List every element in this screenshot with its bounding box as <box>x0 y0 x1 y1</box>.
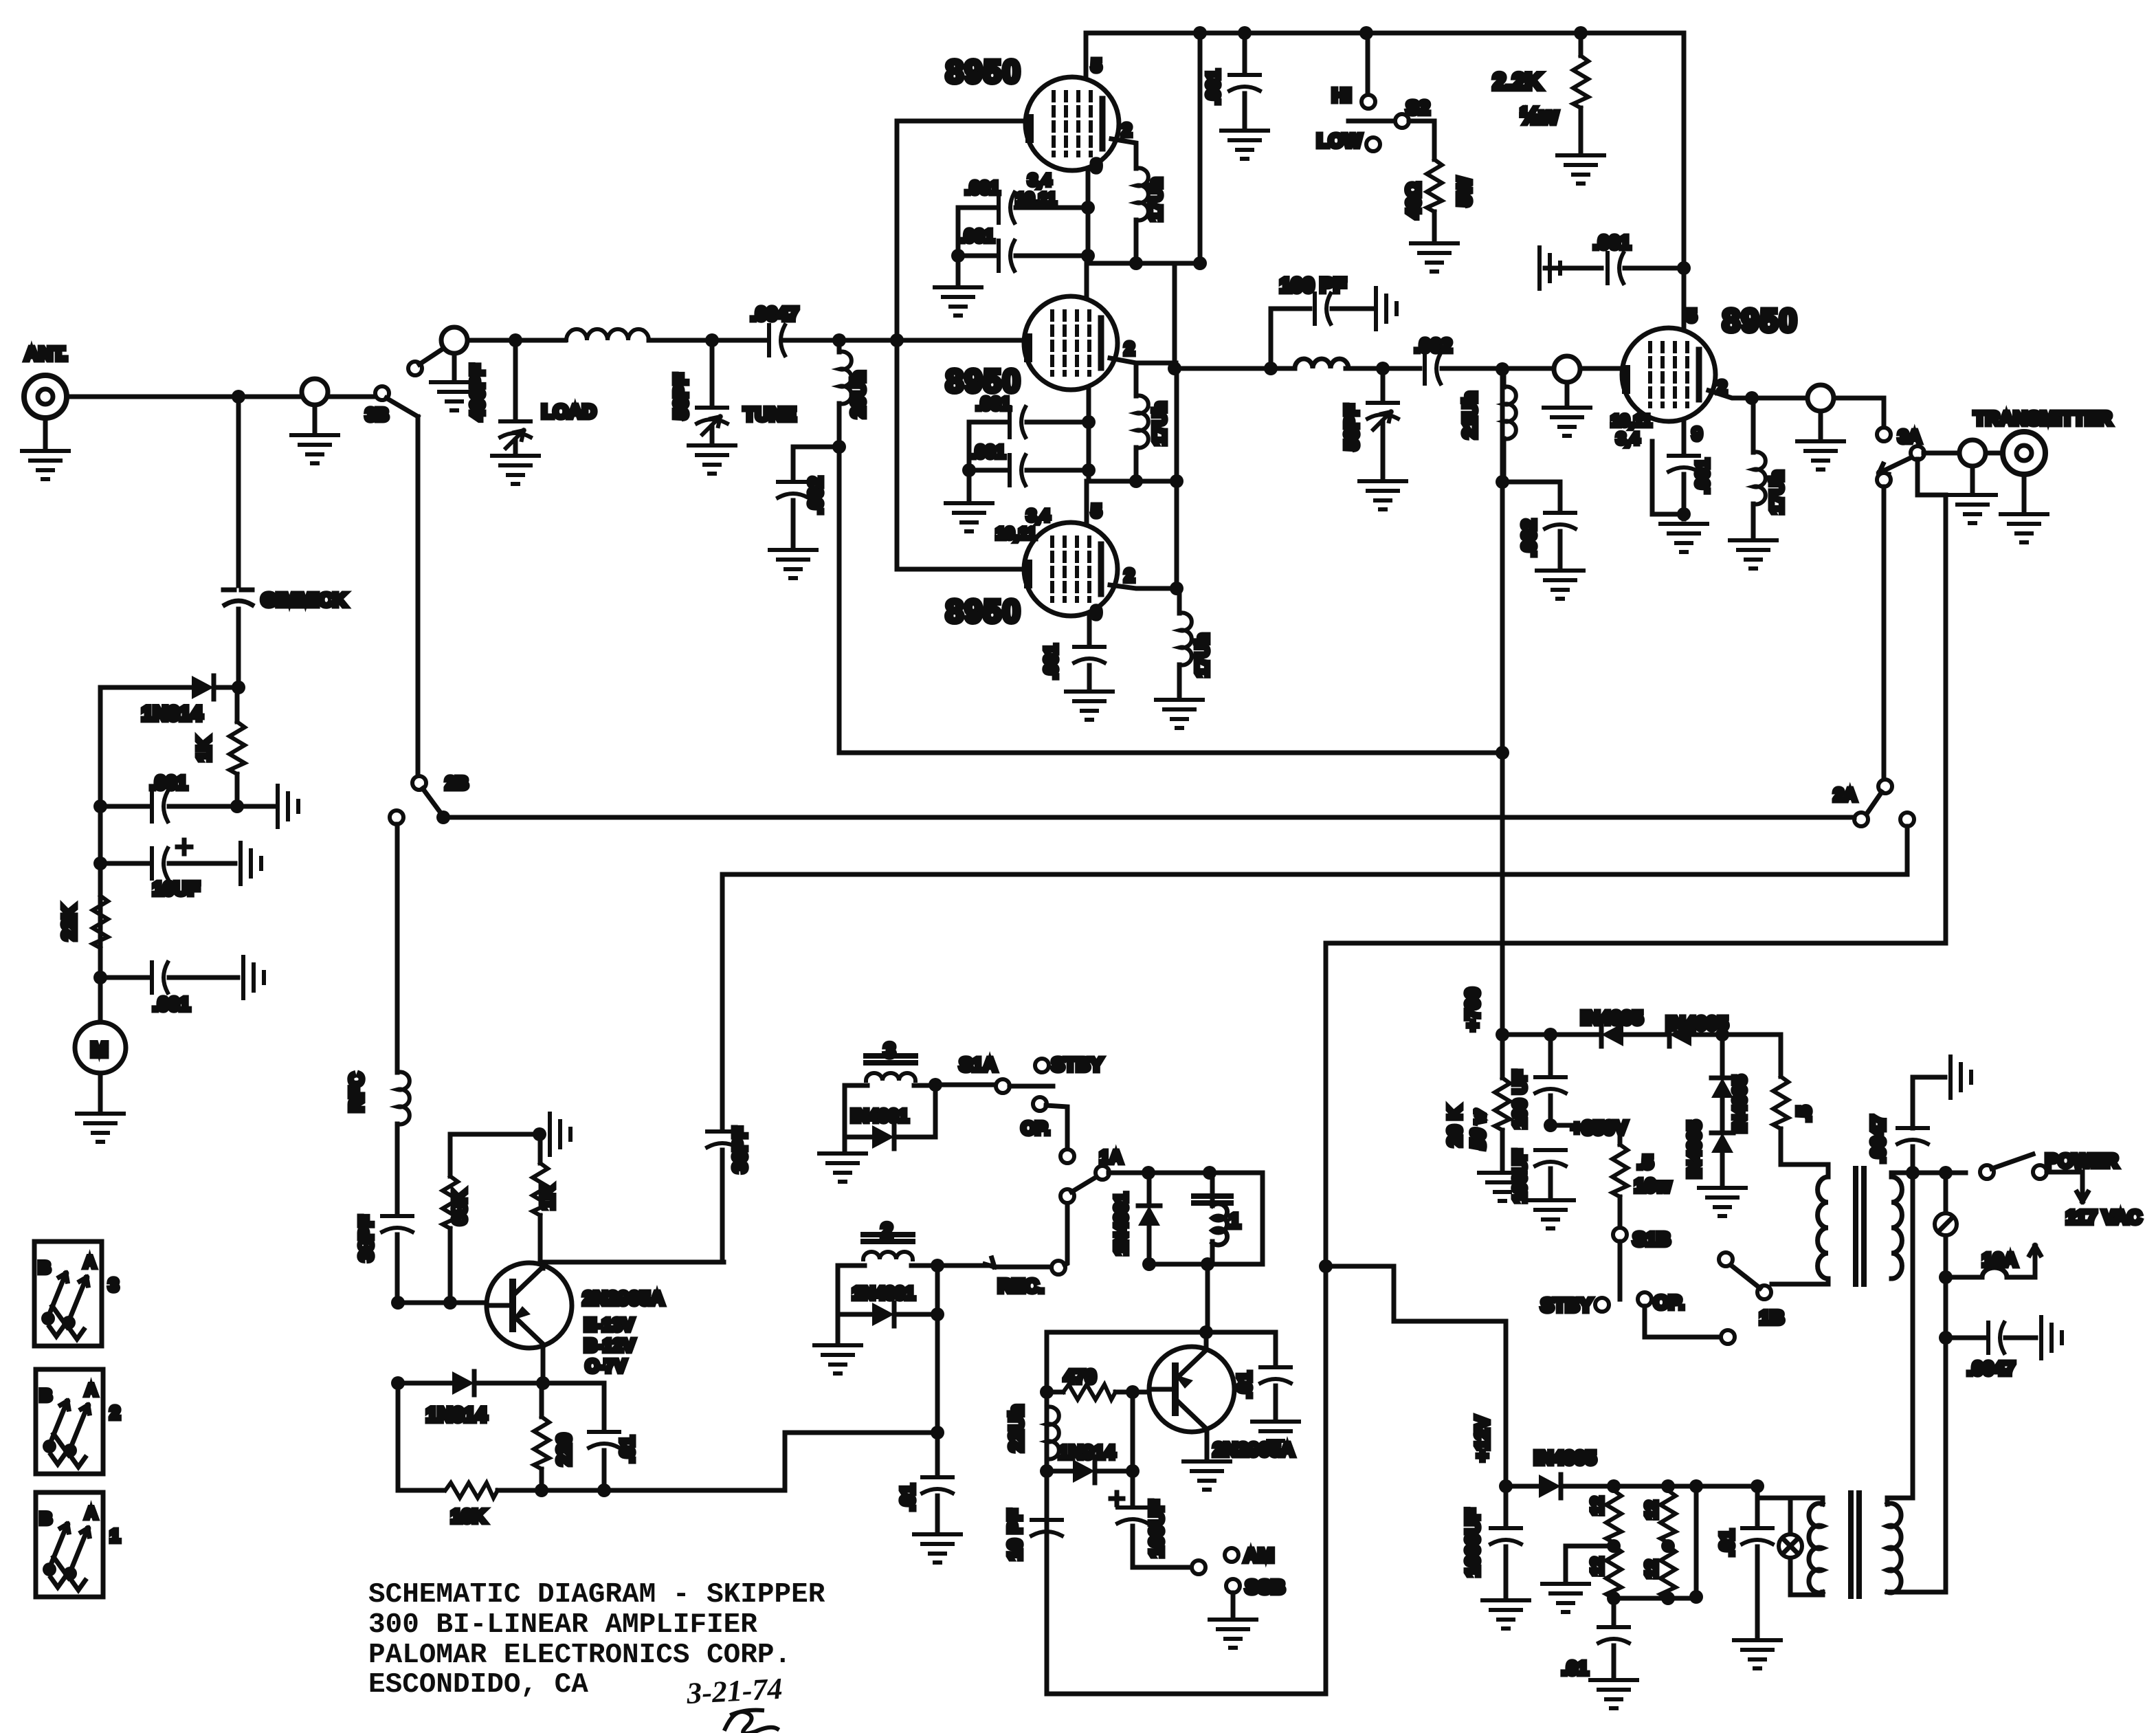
connector feedthru tube4 grid <box>1554 356 1580 382</box>
wire 3B to 2B <box>416 417 421 777</box>
ground under C24 <box>1252 1422 1299 1450</box>
capacitor C5 50PF TUNE variable <box>710 340 715 407</box>
switch 1B contact <box>1719 1252 1733 1266</box>
svg-text:2N2905A: 2N2905A <box>1213 1439 1294 1460</box>
wire tube1 cathode <box>1086 170 1091 263</box>
svg-text:ESCONDIDO, CA: ESCONDIDO, CA <box>368 1669 588 1701</box>
node junction grid bus <box>890 333 904 347</box>
ground under .01 T2 <box>1734 1640 1781 1668</box>
wire line2 2B to 2A <box>443 815 1854 820</box>
node junction Q2 base <box>1126 1385 1140 1399</box>
svg-text:1A: 1A <box>1100 1147 1122 1167</box>
svg-text:1N914: 1N914 <box>426 1404 487 1426</box>
wire bottom rail <box>398 1488 443 1493</box>
wire L1 to TUNE junction <box>649 338 767 343</box>
resistor R4 2.2K half W <box>1574 26 1588 40</box>
capacitor C11 .001 tube2 bypass <box>969 468 1006 473</box>
node junction .001 lower <box>93 971 107 984</box>
switch REC contact <box>1052 1261 1065 1274</box>
transformer T1 core <box>1856 1169 1864 1284</box>
svg-text:B: B <box>38 1259 50 1277</box>
node junction output feed <box>1168 362 1181 375</box>
svg-text:100 PF: 100 PF <box>1280 274 1346 297</box>
capacitor C32 .01 rect <box>1612 1598 1616 1626</box>
node junction .0047 lower <box>1939 1331 1953 1345</box>
node junction Q2 top <box>1199 1325 1213 1339</box>
node junction diode line left <box>391 1376 405 1390</box>
wire 2A right contact to line3 <box>722 826 1907 874</box>
ground under .01 rect <box>1590 1680 1637 1708</box>
capacitor C30 .0047 lower <box>1946 1336 1985 1340</box>
svg-text:LOW: LOW <box>1317 130 1362 151</box>
wire GIMMICK upper lead <box>236 397 241 586</box>
svg-text:TUNE: TUNE <box>744 404 796 425</box>
ground under transmitter <box>2001 514 2047 542</box>
diode D11 IN4005 <box>1506 1484 1537 1489</box>
switch POWER blade <box>1992 1154 2033 1169</box>
wire GIMMICK lower lead <box>236 609 241 687</box>
svg-text:.001: .001 <box>959 225 994 246</box>
capacitor C21 30PF <box>720 874 725 1131</box>
svg-text:.01: .01 <box>1562 1657 1588 1679</box>
transistor Q2 2N2905A <box>1149 1347 1234 1432</box>
svg-text:.001: .001 <box>1203 69 1223 104</box>
wire collector line <box>543 1260 724 1265</box>
wire screen feed vertical <box>1198 33 1203 263</box>
node junction 100UF stack <box>1544 1028 1557 1041</box>
wire output line tube2 plate <box>1176 366 1295 371</box>
svg-text:.001: .001 <box>976 393 1011 414</box>
capacitor C33 .01 T2 <box>1755 1486 1760 1527</box>
ground tube1 bypass <box>935 287 981 316</box>
switch 3A lower contact <box>1877 473 1891 487</box>
ground under grid feedthru <box>1544 408 1590 436</box>
svg-text:.5: .5 <box>1637 1151 1653 1173</box>
svg-text:12: 12 <box>1588 1497 1607 1515</box>
svg-text:2: 2 <box>1122 120 1131 140</box>
svg-text:.001: .001 <box>153 993 190 1015</box>
switch S1B OP contact <box>1638 1292 1652 1306</box>
capacitor C12 .001 tube3 <box>1074 647 1104 663</box>
ground chassis under 100UF <box>1527 1200 1574 1228</box>
resistor R11 .5 <box>1779 1035 1783 1077</box>
wire .0047 to grid bus <box>785 338 1023 343</box>
ground tube2 bypass <box>946 503 992 531</box>
svg-text:AM: AM <box>1244 1545 1274 1566</box>
switch POWER pivot <box>1980 1165 1994 1179</box>
capacitor C1 .001 <box>100 804 148 809</box>
svg-text:S1A: S1A <box>959 1054 997 1075</box>
svg-text:OP.: OP. <box>1021 1118 1049 1138</box>
capacitor C10 .001 tube2 bypass <box>969 420 1006 425</box>
node junction +350V <box>1544 1118 1557 1132</box>
svg-text:9: 9 <box>1692 423 1702 444</box>
inductor L5 17Uh tube3 <box>1177 588 1182 613</box>
wire 1A to relay1 <box>1109 1171 1263 1175</box>
wire ANT to switch 3B <box>67 395 379 399</box>
capacitor C13 .001 bus bypass <box>1243 33 1247 74</box>
capacitor GIMMICK <box>223 588 254 593</box>
svg-text:1N4001: 1N4001 <box>1111 1193 1131 1255</box>
svg-text:12: 12 <box>1588 1557 1607 1576</box>
wire 3A to 2A <box>1882 487 1887 780</box>
svg-text:1000UF: 1000UF <box>1462 1508 1483 1577</box>
wire Q1 collector <box>541 1263 546 1268</box>
diode D3 1N4001 relay2 <box>838 1312 871 1317</box>
svg-text:GIMMICK: GIMMICK <box>261 589 346 610</box>
wire relay2 right leg <box>935 1266 940 1433</box>
node junction 20uh <box>832 333 846 347</box>
wire rect mid stub to ground <box>1566 1546 1614 1580</box>
ground under .002 bypass <box>1537 571 1583 599</box>
switch S2 HI contact <box>1362 95 1375 109</box>
svg-text:10,11: 10,11 <box>996 525 1036 543</box>
diode D4 1N4001 relay3 <box>872 1125 894 1149</box>
node junction cathode cap B <box>1081 249 1095 263</box>
wire to 50PF junction <box>1346 366 1420 371</box>
wire pivot line to transmitter <box>1924 451 2001 456</box>
ground under rect stub <box>1542 1584 1589 1612</box>
node junction bus HI <box>1359 26 1373 40</box>
diode D7 IN4005 <box>1601 1023 1623 1046</box>
switch 2B left contact <box>390 810 403 824</box>
svg-text:M: M <box>91 1039 108 1061</box>
wire Q2 emitter ground <box>1205 1429 1210 1457</box>
ground chassis right of 10UF <box>241 843 261 884</box>
wire base drop <box>1131 1392 1135 1471</box>
diode D10 IN4005 vertical <box>1711 1133 1733 1153</box>
node junction rect A <box>1607 1479 1621 1493</box>
svg-text:8950: 8950 <box>1722 302 1798 338</box>
transformer T2 primary <box>1809 1503 1823 1593</box>
winding W2 12V <box>1660 1490 1676 1543</box>
svg-text:10UF: 10UF <box>153 878 199 899</box>
capacitor C17 .002 series <box>1425 353 1441 384</box>
ground under .002 <box>770 550 816 578</box>
inductor L6 output <box>1295 359 1348 368</box>
node junction anode bus tube2 <box>1170 474 1183 488</box>
svg-text:PALOMAR ELECTRONICS CORP.: PALOMAR ELECTRONICS CORP. <box>368 1640 791 1671</box>
node junction ANT/GIMMICK <box>232 390 245 404</box>
svg-text:.01: .01 <box>1234 1371 1255 1398</box>
ground chassis .0047 <box>1951 1057 1971 1098</box>
wire bias top line <box>450 1132 540 1137</box>
connector feedthru tube4 plate <box>1808 385 1834 411</box>
wire relay1 right leg <box>1260 1173 1265 1264</box>
svg-text:S1B: S1B <box>1633 1228 1670 1250</box>
svg-text:2: 2 <box>1124 565 1134 586</box>
relay RY1 coil <box>1194 1196 1231 1203</box>
node junction relay2 drop <box>931 1426 944 1439</box>
transformer T1 primary <box>1818 1177 1828 1279</box>
wire 12V rail <box>1614 1484 1757 1489</box>
relay RY1 rail top <box>1142 1166 1155 1180</box>
resistor R8 10K <box>445 1483 498 1498</box>
node junction gimmick/1N914/1K <box>232 681 245 694</box>
svg-text:A: A <box>84 1253 96 1272</box>
ground under diode stack <box>1699 1188 1746 1216</box>
node junction fuse <box>1939 1270 1953 1284</box>
wire S2 to 40 ohm <box>1409 121 1434 159</box>
capacitor C18 .002 bypass <box>1545 513 1575 529</box>
node junction rect mid <box>1607 1539 1621 1553</box>
switch 1A pivot <box>1096 1166 1109 1180</box>
capacitor C24 .01 at Q2 <box>1274 1332 1278 1367</box>
capacitor C22 .01 <box>602 1383 607 1431</box>
node junction .001 <box>93 799 107 813</box>
node junction T2 tap <box>1751 1479 1764 1493</box>
capacitor C27 100UF upper <box>1548 1035 1553 1077</box>
svg-text:.001: .001 <box>1593 232 1631 253</box>
ground chassis bias <box>550 1114 570 1155</box>
svg-text:3: 3 <box>109 1274 118 1295</box>
wire tube4 pin2 output <box>1709 390 1884 398</box>
svg-text:ANT.: ANT. <box>25 343 67 364</box>
capacitor C25 100UF <box>1131 1471 1135 1507</box>
node junction .0047 tap <box>1906 1166 1920 1180</box>
wire plate feed line 1 <box>839 751 1502 755</box>
svg-text:40Ω: 40Ω <box>1403 182 1424 219</box>
switch SSB contact <box>1226 1579 1240 1593</box>
lamp pilot fuse indicator <box>1935 1213 1957 1235</box>
svg-text:2A: 2A <box>1834 784 1856 805</box>
node junction emitter/diode <box>536 1376 550 1390</box>
node junction tube4 cathode <box>1677 507 1691 521</box>
wire 3B upper contact to connector <box>419 349 443 364</box>
wire 1K bottom <box>235 774 240 806</box>
svg-text:100UF: 100UF <box>1509 1149 1530 1203</box>
wire tube4 screen loop <box>1652 441 1684 514</box>
wire keying to relay2 <box>785 1433 937 1490</box>
node junction 1000UF <box>1499 1479 1513 1493</box>
svg-text:17Uh: 17Uh <box>1145 177 1166 221</box>
wire ANT jack to ground <box>43 418 48 448</box>
resistor R1 1K <box>235 687 240 722</box>
svg-text:.001: .001 <box>150 772 188 793</box>
transformer T2 secondary <box>1887 1503 1901 1593</box>
wire grid bus vertical <box>895 121 900 569</box>
svg-text:B: B <box>40 1510 52 1528</box>
vacuum tube V2 8950 <box>1024 296 1118 390</box>
wire Q2 collector top <box>1204 1332 1209 1349</box>
svg-text:.0047: .0047 <box>1867 1115 1889 1163</box>
svg-text:10w: 10w <box>1634 1175 1671 1196</box>
wire T2 secondary top <box>1887 1173 1913 1504</box>
switch box detail 2 <box>36 1369 120 1474</box>
wire REC line <box>937 1263 990 1268</box>
wire +700 rail <box>1502 1033 1601 1037</box>
svg-text:22K: 22K <box>58 905 80 940</box>
wire +12V step line <box>1329 1266 1506 1486</box>
svg-text:1N4001: 1N4001 <box>852 1283 915 1303</box>
wire bypass left leg <box>956 208 961 283</box>
capacitor C3 .001 <box>100 975 148 980</box>
svg-text:IN4005: IN4005 <box>1684 1121 1704 1178</box>
meter M <box>75 1022 126 1073</box>
ground under meter <box>77 1114 124 1142</box>
switch 3B contact <box>375 386 389 400</box>
wire HI drop <box>1366 33 1370 95</box>
ground under 17uh4 <box>1730 540 1777 569</box>
switch box detail 1 <box>36 1492 120 1597</box>
wire T2 secondary bottom <box>1887 1590 1946 1595</box>
svg-text:.002: .002 <box>1518 520 1540 558</box>
ground under relay3 <box>819 1154 866 1182</box>
lamp PL pilot <box>1788 1498 1793 1595</box>
svg-text:2: 2 <box>1124 338 1134 359</box>
svg-text:5: 5 <box>1091 55 1101 76</box>
capacitor C19 .001 tube4 <box>1669 456 1699 472</box>
svg-text:B: B <box>40 1387 52 1405</box>
capacitor C2 10UF polarized <box>100 861 148 866</box>
wire plate feed down <box>837 447 842 753</box>
inductor L8 17Uh tube4 <box>1751 398 1756 452</box>
capacitor C4 400PF LOAD variable <box>513 340 518 421</box>
ground under transmitter feedthru <box>1949 495 1996 523</box>
transistor Q1 2N2905A <box>487 1263 572 1348</box>
wire B+ drop to line1 <box>1500 369 1505 1035</box>
ground under plate feedthru <box>1797 441 1844 470</box>
switch AM contact on line <box>1192 1560 1205 1574</box>
resistor R5 68K <box>448 1134 453 1176</box>
svg-text:IN4005: IN4005 <box>1534 1447 1596 1468</box>
svg-text:17Uh: 17Uh <box>1149 401 1170 445</box>
node junction bypass left <box>951 249 965 263</box>
node junction diode pair <box>1715 1028 1729 1041</box>
inductor L10 22Uh <box>1045 1392 1049 1407</box>
winding W4 12V <box>1660 1546 1676 1598</box>
wire 3A pivot to keying line <box>1918 459 1946 943</box>
node junction LOAD <box>509 333 522 347</box>
wire tube2 cathode <box>1087 390 1091 481</box>
svg-text:.5: .5 <box>1793 1106 1814 1122</box>
svg-text:STBY: STBY <box>1541 1294 1592 1316</box>
wire grid stub tube3 <box>897 567 1027 572</box>
node junction bus feed <box>1193 26 1207 40</box>
wire keying line4 <box>1326 943 1944 1694</box>
svg-text:100UF: 100UF <box>1146 1500 1167 1558</box>
resistor R10 20K 50W <box>1500 1035 1505 1078</box>
switch S1A STBY contact <box>1035 1059 1049 1072</box>
svg-text:.01: .01 <box>616 1436 638 1463</box>
wire rect bottom rail <box>1614 1596 1696 1601</box>
vacuum tube V3 8950 <box>1024 522 1118 616</box>
wire plate tie line <box>1175 368 1179 588</box>
wire tube1 pin5 to bus <box>1084 33 1089 78</box>
svg-text:1N914: 1N914 <box>142 703 203 725</box>
svg-text:22Uh: 22Uh <box>1005 1405 1027 1452</box>
wire Q2 net bottom rail <box>1047 1692 1326 1697</box>
svg-text:10 PF: 10 PF <box>1004 1509 1025 1560</box>
capacitor C14 .001 at tube4 screen <box>1540 247 1560 289</box>
winding W1 12V <box>1606 1490 1621 1543</box>
relay RY3 box <box>845 1085 935 1137</box>
wire bus right corner to tube4 pin5 <box>1682 33 1687 328</box>
node junction TUNE <box>705 333 719 347</box>
node junction bus .001 <box>1238 26 1252 40</box>
svg-text:C-7V: C-7V <box>586 1356 627 1376</box>
node junction feed <box>1193 256 1207 270</box>
switch S2 blade <box>1348 119 1394 124</box>
node junction step on keying vertical <box>1319 1259 1333 1273</box>
wire T2 top lead <box>1757 1486 1823 1504</box>
node junction .001/tube4 feed <box>1677 261 1691 275</box>
wire tube3 cathode pin9 <box>1087 616 1092 646</box>
node junction 2B blade <box>436 810 450 824</box>
svg-text:2N2905A: 2N2905A <box>583 1288 664 1309</box>
svg-text:10A: 10A <box>1982 1249 2017 1270</box>
capacitor C31 1000UF <box>1504 1486 1509 1527</box>
capacitor C28 100UF lower <box>1535 1150 1566 1166</box>
wire tube2 pin5 stub <box>1085 263 1089 297</box>
wire 21uh bottom to .002 bypass <box>1502 482 1560 512</box>
switch AM upper contact <box>1225 1548 1238 1562</box>
ground under relay2 <box>814 1345 861 1373</box>
svg-text:B-12V: B-12V <box>584 1335 635 1356</box>
wire to chassis ground <box>237 804 274 809</box>
relay RY2 coil <box>863 1235 913 1259</box>
wire relay3 ground stem <box>843 1137 847 1149</box>
node junction 220 bottom <box>535 1483 548 1497</box>
wire left rail x146 <box>98 687 103 1022</box>
svg-text:HI: HI <box>1332 85 1351 106</box>
svg-text:12: 12 <box>1643 1501 1661 1519</box>
ground under tube3 cathode <box>1066 692 1113 720</box>
svg-text:LOAD: LOAD <box>542 401 596 422</box>
svg-text:400PF: 400PF <box>467 364 488 421</box>
wire T2 bottom lead <box>1790 1592 1823 1595</box>
resistor R6 1K <box>538 1134 543 1163</box>
wire T1 primary bottom to 1B <box>1772 1279 1828 1284</box>
capacitor C15 100 PF feedback <box>1271 309 1310 368</box>
node junction rect B <box>1661 1479 1675 1493</box>
svg-text:E-13V: E-13V <box>584 1314 634 1335</box>
svg-text:SSB: SSB <box>1245 1576 1285 1598</box>
switch box detail 3 <box>34 1241 118 1346</box>
ground under feedthru <box>291 435 338 463</box>
svg-text:5: 5 <box>1687 305 1696 326</box>
svg-text:3,4: 3,4 <box>1616 430 1640 448</box>
switch 2A right contact <box>1900 813 1914 826</box>
capacitor C6 .0047 series <box>769 325 785 355</box>
ground chassis under 20K <box>1479 1173 1526 1201</box>
svg-text:IN4001: IN4001 <box>851 1105 909 1126</box>
wire anode bus tube2 <box>1089 479 1177 484</box>
svg-text:8950: 8950 <box>946 54 1021 89</box>
switch 2A top contact <box>1878 780 1892 793</box>
svg-text:.01: .01 <box>897 1484 918 1511</box>
node junction 21uh bottom <box>1496 475 1509 489</box>
svg-text:470: 470 <box>1064 1366 1096 1387</box>
svg-text:IN4005: IN4005 <box>1729 1075 1750 1133</box>
switch POWER contact <box>2033 1165 2047 1179</box>
wire Q1 emitter <box>541 1346 546 1383</box>
node junction relay2 top right <box>931 1259 944 1272</box>
switch S1B pivot <box>1613 1228 1627 1241</box>
svg-text:3B: 3B <box>366 404 388 425</box>
wire 1N914 anode line <box>100 685 190 690</box>
svg-text:.002: .002 <box>1414 335 1452 356</box>
capacitor C8 .001 tube1 bypass <box>958 206 995 210</box>
wire Q2 top line <box>1047 1330 1276 1335</box>
svg-text:.001: .001 <box>1692 459 1713 494</box>
wire relay2 ground stem <box>836 1314 841 1342</box>
inductor L2 20Uh <box>837 340 842 352</box>
wire tube3 pin2 <box>1110 585 1177 588</box>
capacitor C9 .001 tube1 bypass <box>958 254 995 258</box>
svg-text:100 UF: 100 UF <box>1509 1070 1530 1129</box>
svg-text:IN4005: IN4005 <box>1581 1007 1643 1028</box>
